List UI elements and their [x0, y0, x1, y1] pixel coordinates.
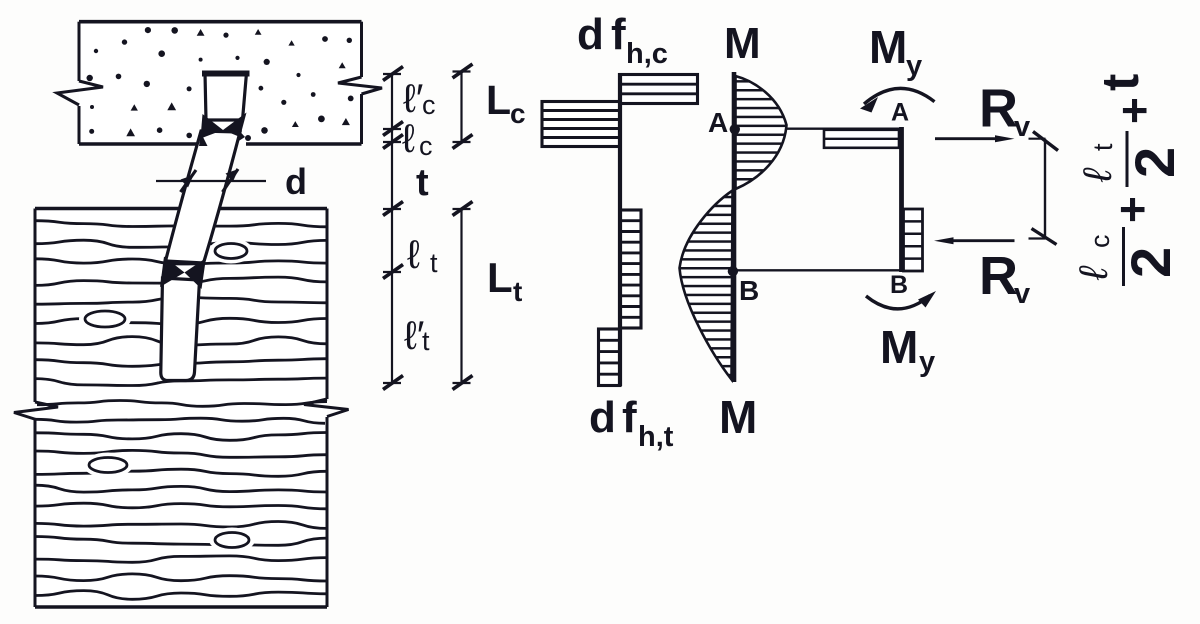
svg-text:A: A: [891, 99, 909, 127]
svg-text:d: d: [577, 10, 604, 59]
svg-text:L: L: [487, 254, 513, 301]
svg-text:t: t: [1092, 74, 1150, 91]
svg-text:B: B: [739, 275, 759, 306]
svg-text:ℓ: ℓ: [1076, 167, 1120, 183]
svg-text:ℓ: ℓ: [407, 233, 420, 277]
svg-text:M: M: [880, 321, 918, 373]
svg-text:c: c: [1085, 235, 1115, 249]
svg-text:ℓ′: ℓ′: [403, 77, 423, 121]
svg-text:A: A: [708, 107, 728, 138]
svg-text:v: v: [1014, 278, 1030, 310]
svg-text:c: c: [510, 98, 526, 129]
svg-text:f: f: [622, 393, 637, 442]
svg-text:y: y: [919, 346, 935, 378]
svg-text:c: c: [419, 131, 433, 161]
svg-text:R: R: [979, 79, 1018, 139]
svg-text:d: d: [285, 161, 307, 202]
svg-text:t: t: [430, 248, 438, 278]
svg-text:M: M: [719, 391, 757, 443]
svg-text:+: +: [1106, 196, 1158, 223]
svg-text:+: +: [1108, 97, 1160, 124]
svg-text:t: t: [416, 162, 429, 204]
svg-text:B: B: [890, 271, 908, 299]
svg-text:2: 2: [1119, 247, 1182, 278]
svg-text:L: L: [486, 77, 511, 123]
svg-text:ℓ: ℓ: [1072, 265, 1116, 281]
svg-text:d: d: [589, 393, 616, 442]
svg-text:2: 2: [1123, 147, 1186, 178]
svg-text:c: c: [422, 90, 436, 120]
svg-text:h,t: h,t: [638, 421, 674, 453]
svg-text:t: t: [422, 326, 430, 356]
svg-text:v: v: [1014, 111, 1030, 143]
svg-text:t: t: [513, 276, 522, 307]
svg-text:h,c: h,c: [626, 38, 668, 70]
svg-text:R: R: [979, 246, 1018, 306]
svg-text:y: y: [906, 50, 922, 82]
svg-text:t: t: [1088, 143, 1118, 151]
svg-text:f: f: [611, 10, 626, 59]
svg-text:ℓ: ℓ: [402, 117, 415, 161]
svg-text:M: M: [724, 19, 761, 68]
svg-text:M: M: [869, 21, 907, 73]
